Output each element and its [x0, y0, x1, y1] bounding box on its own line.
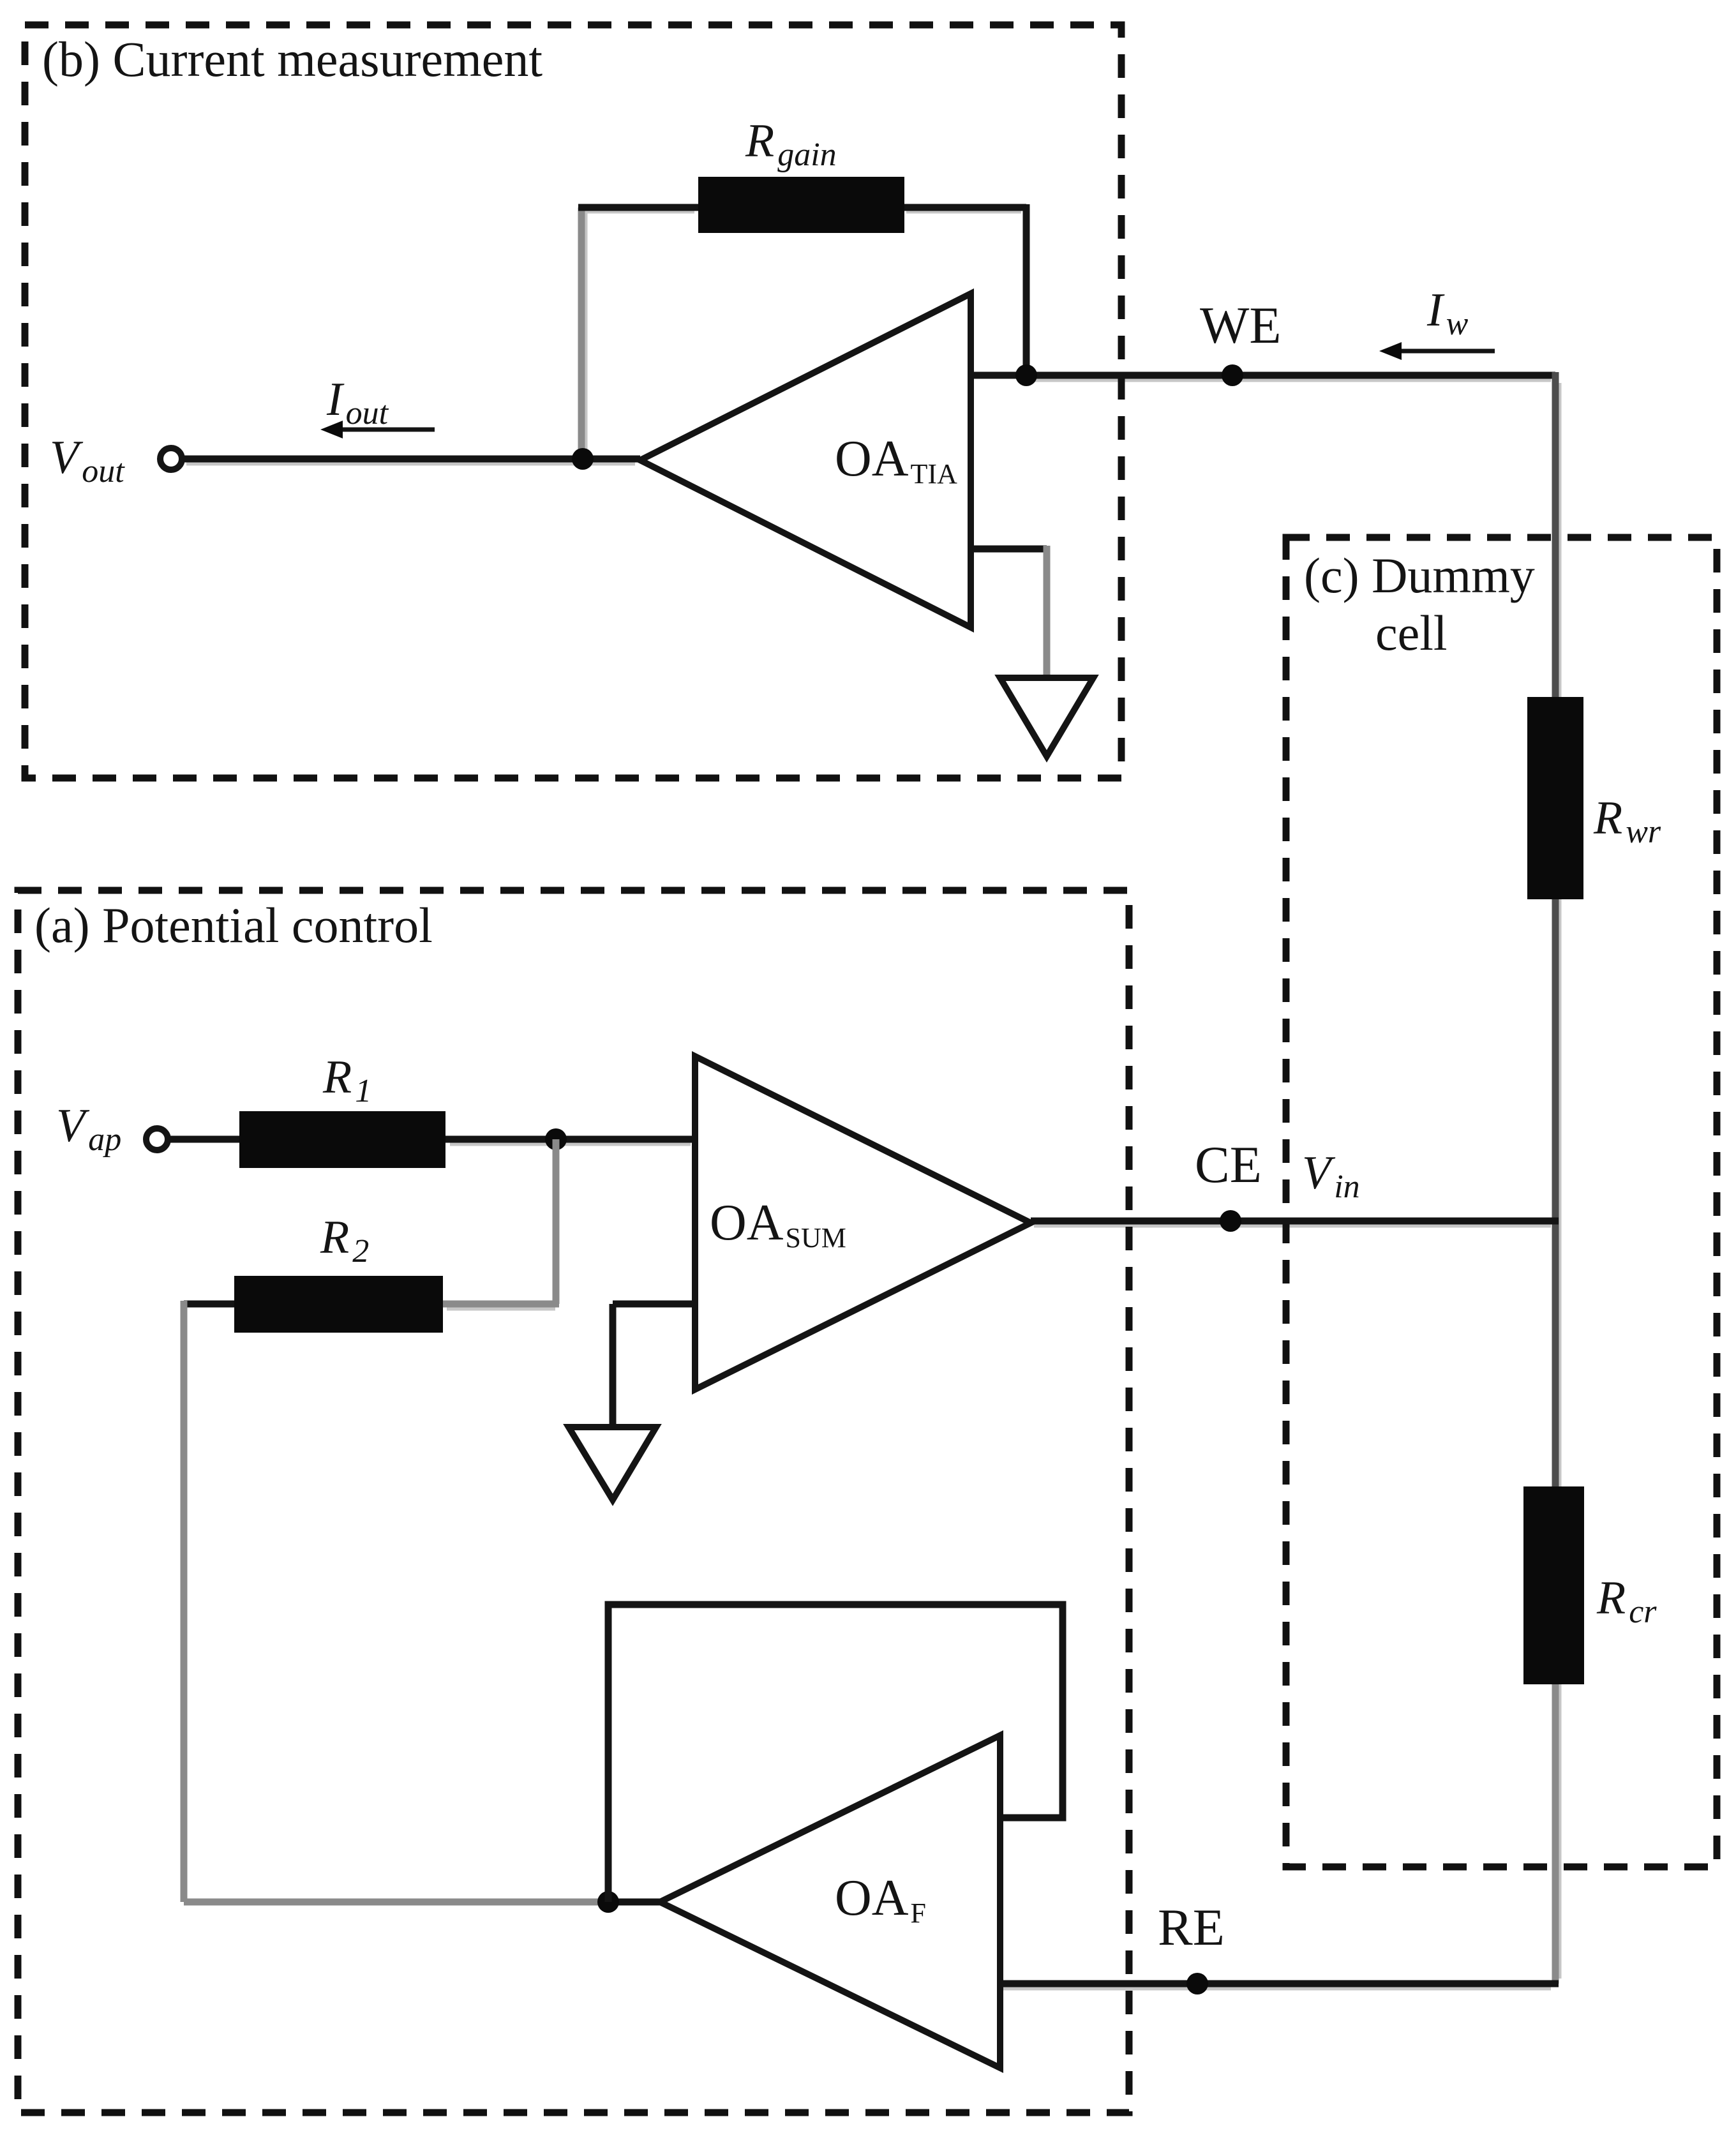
arrow Iw — [1379, 342, 1495, 360]
svg-text:WE: WE — [1200, 296, 1281, 354]
wire CE from OA_SUM to dummy cell — [1031, 1218, 1559, 1225]
op-amp OA_F — [660, 1735, 1000, 2068]
svg-text:cell: cell — [1375, 605, 1448, 661]
node RE dot — [1186, 1973, 1208, 1995]
dashed box a Potential control — [18, 890, 1129, 2113]
wire gray feedback down left side — [181, 1301, 188, 1902]
junction Rgain WE — [1015, 364, 1037, 386]
wire Rgain right vertical — [1023, 204, 1030, 375]
wire gray feedback left vertical — [578, 207, 585, 459]
resistor Rgain — [698, 177, 904, 233]
wire inverting input stub to WE — [971, 372, 1555, 379]
wire gray to ground b — [1044, 546, 1051, 678]
wire main vertical below Rcr to RE — [1552, 1684, 1559, 1984]
junction R1 R2 — [545, 1128, 567, 1150]
op-amp OA_SUM — [695, 1056, 1031, 1389]
terminal Vap — [146, 1128, 168, 1150]
wire shadow fringes — [186, 211, 1560, 1989]
ground b — [1000, 678, 1093, 756]
wire OA_F apex stub — [608, 1899, 660, 1906]
dashed box c Dummy cell — [1286, 537, 1717, 1867]
wire OA_SUM ground vertical — [610, 1304, 617, 1427]
svg-text:(c) Dummy: (c) Dummy — [1304, 548, 1535, 603]
arrow Iout — [320, 421, 435, 438]
svg-text:(a) Potential control: (a) Potential control — [34, 897, 433, 953]
wire Rgain right horizontal — [904, 204, 1026, 211]
wire Vout to OA_TIA apex — [182, 456, 640, 463]
wire Vap to R1 — [168, 1136, 239, 1143]
wire R1 to OA_SUM — [445, 1136, 695, 1143]
wire R2 left — [184, 1301, 234, 1308]
wire RE from OA_F output — [1000, 1980, 1559, 1987]
junction OA_F input — [597, 1891, 619, 1913]
wire gray feedback bottom horizontal — [184, 1899, 608, 1906]
node WE dot — [1222, 364, 1243, 386]
svg-text:CE: CE — [1195, 1135, 1262, 1194]
dashed box b Current measurement — [25, 25, 1121, 778]
resistor R2 — [234, 1276, 443, 1333]
resistor R1 — [239, 1111, 445, 1168]
wire OA_TIA noninv stub — [971, 546, 1047, 553]
svg-text:(b) Current measurement: (b) Current measurement — [42, 31, 542, 87]
ground a — [569, 1427, 656, 1500]
terminal Vout — [160, 448, 182, 470]
resistor Rcr — [1523, 1486, 1584, 1684]
wire gray junction down to R2 level — [553, 1139, 560, 1304]
wire main vertical WE down to Rwr — [1552, 372, 1559, 697]
wire gray R2 right — [443, 1301, 559, 1308]
wire main vertical between Rwr and Rcr — [1552, 899, 1559, 1486]
junction Vout feedback — [572, 448, 594, 470]
node CE dot — [1220, 1210, 1241, 1232]
wire Rgain left horizontal — [578, 204, 698, 211]
wire OA_SUM noninv stub — [613, 1301, 695, 1308]
op-amp OA_TIA — [640, 294, 971, 627]
wire OA_F feedback loop — [608, 1605, 1063, 1902]
resistor Rwr — [1527, 697, 1583, 899]
svg-text:RE: RE — [1158, 1898, 1225, 1956]
